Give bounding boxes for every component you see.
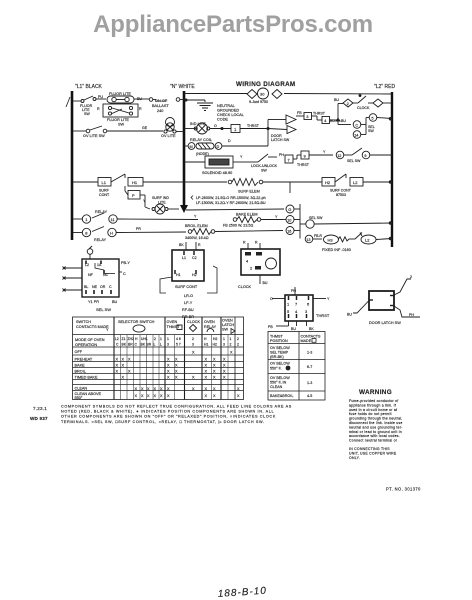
svg-text:X: X: [205, 370, 208, 374]
lamp oven light: [164, 118, 184, 134]
selector block top pin A: [87, 246, 93, 259]
svg-text:X: X: [213, 364, 216, 368]
label CLOCK: [357, 106, 370, 110]
table row BAKE: [75, 363, 227, 367]
svg-text:PREHEAT: PREHEAT: [75, 357, 93, 361]
svg-text:X: X: [223, 376, 226, 380]
svg-text:X: X: [167, 376, 170, 380]
svg-text:X: X: [160, 394, 163, 398]
svg-text:3: 3: [192, 343, 194, 347]
surf cont block top stubs: [186, 242, 196, 250]
label SURF CONT block: [175, 285, 198, 289]
svg-text:R: R: [255, 241, 258, 245]
svg-text:GROUNDED: GROUNDED: [217, 109, 239, 113]
svg-text:OVEN: OVEN: [222, 319, 233, 323]
svg-text:PH: PH: [409, 313, 414, 317]
svg-text:3: 3: [306, 114, 309, 119]
svg-text:H: H: [135, 337, 138, 341]
thrst pins top: [287, 296, 310, 307]
selector contact 14: [353, 131, 361, 139]
svg-text:C: C: [135, 343, 138, 347]
svg-text:H: H: [204, 337, 207, 341]
selector contact 10: [283, 216, 300, 224]
svg-text:BROIL ELEM: BROIL ELEM: [185, 224, 208, 228]
svg-text:SEL TEMP: SEL TEMP: [270, 351, 289, 355]
svg-text:NOTED (RED, BLACK & WHITE): NOTED (RED, BLACK & WHITE). ● INDICATES …: [61, 410, 274, 414]
label R left: [97, 107, 100, 111]
surface control H2 box: [290, 174, 346, 186]
svg-text:DOOR LATCH SW: DOOR LATCH SW: [369, 321, 401, 325]
fixed infinite switch: [349, 233, 362, 240]
svg-text:X: X: [205, 376, 208, 380]
svg-text:O: O: [270, 297, 273, 301]
svg-text:accordance with local codes: accordance with local codes.: [349, 434, 400, 438]
svg-text:CONTACTS: CONTACTS: [301, 335, 322, 339]
svg-text:MODE OF OVEN: MODE OF OVEN: [75, 338, 105, 342]
mode table grid: [73, 317, 244, 400]
svg-text:"L1" BLACK: "L1" BLACK: [75, 84, 103, 90]
svg-text:2: 2: [192, 337, 194, 341]
surf cont pin ticks: [175, 251, 196, 274]
svg-text:CLEAN: CLEAN: [75, 387, 88, 391]
spec bracket: [191, 196, 193, 200]
svg-text:R: R: [139, 107, 142, 111]
svg-text:X: X: [230, 350, 233, 354]
table row BROIL: [75, 369, 227, 373]
svg-text:FB-R: FB-R: [314, 234, 322, 238]
table row CLEAN ABOVE 550: [75, 392, 241, 400]
table row CLEAN: [75, 387, 241, 391]
surface control H1 box: [125, 174, 227, 195]
label 9-Junt 9750: [249, 100, 268, 104]
thrst bottom stubs: [276, 321, 307, 326]
svg-text:LP-2600W, 21.5Ω-O RR-1500W: LP-2600W, 21.5Ω-O RR-1500W, 3Ω.22-ph: [196, 196, 266, 200]
svg-text:X: X: [175, 358, 178, 362]
svg-text:C: C: [355, 122, 358, 127]
svg-text:5 7: 5 7: [176, 343, 181, 347]
svg-text:WD 937: WD 937: [30, 416, 48, 421]
label 2 door latch: [410, 275, 412, 279]
title WIRING DIAGRAM: [236, 81, 295, 88]
label SEL SW lock row: [347, 159, 361, 163]
selector contact 9: [362, 151, 392, 159]
label SEL SW bake: [309, 216, 323, 220]
label SURF IND LITE: [152, 196, 169, 205]
svg-text:BU: BU: [330, 119, 335, 123]
svg-text:7: 7: [288, 158, 291, 163]
label BAKE ELEM: [236, 213, 258, 217]
svg-text:BK: BK: [141, 343, 146, 347]
svg-text:2: 2: [154, 337, 156, 341]
svg-text:BR: BR: [147, 343, 152, 347]
svg-text:IN CONNECTING THIS: IN CONNECTING THIS: [349, 447, 390, 451]
svg-text:3: 3: [305, 309, 308, 314]
label OV LITE: [161, 134, 176, 138]
svg-text:Y: Y: [327, 297, 330, 301]
svg-text:1: 1: [230, 337, 232, 341]
warning paragraph: [349, 399, 403, 443]
svg-text:appliance through a link.: appliance through a link. If: [349, 403, 396, 407]
svg-text:X: X: [213, 358, 216, 362]
svg-text:X: X: [154, 394, 157, 398]
svg-text:THMST: THMST: [167, 325, 181, 329]
svg-text:OVEN: OVEN: [167, 320, 178, 324]
lamp indicator: [184, 123, 210, 134]
svg-text:D: D: [217, 145, 220, 149]
svg-text:minal or lead to ground u: minal or lead to ground unit in: [349, 430, 402, 434]
terminal box 4 thermostat: [322, 117, 338, 124]
clock block dial circle: [266, 258, 277, 269]
label GE: [142, 126, 148, 130]
table header SELECTOR SWITCH: [118, 320, 155, 332]
svg-text:THRST: THRST: [247, 124, 260, 128]
label BROIL ELEM: [185, 224, 208, 228]
svg-text:FB 2500 W, 23.5Ω: FB 2500 W, 23.5Ω: [223, 224, 253, 228]
bake element resistor: [233, 217, 283, 223]
svg-text:CLEAN: CLEAN: [270, 385, 283, 389]
door latch wire pin2: [394, 279, 411, 295]
label WD 937: [30, 416, 48, 421]
surf cont bracket: [160, 266, 217, 293]
label Y surf ind: [143, 199, 146, 203]
svg-text:LF-Y: LF-Y: [184, 301, 193, 305]
svg-text:7: 7: [295, 302, 298, 307]
svg-text:SOLENOID 48.90: SOLENOID 48.90: [202, 171, 232, 175]
svg-text:OV LITE: OV LITE: [161, 134, 176, 138]
svg-text:CLOCK: CLOCK: [187, 320, 201, 324]
thrst pins bottom: [287, 309, 308, 318]
selector switch block: [82, 259, 119, 297]
svg-text:UNIT, USE COPPER WIRE: UNIT, USE COPPER WIRE: [349, 452, 397, 456]
label PT NO 301370: [386, 487, 421, 492]
svg-text:2: 2: [237, 337, 239, 341]
svg-text:X: X: [192, 350, 195, 354]
svg-text:4: 4: [246, 260, 248, 264]
table row OFF: [75, 350, 234, 354]
svg-text:BROIL: BROIL: [75, 369, 86, 373]
svg-text:550°: 550°: [75, 396, 83, 400]
svg-text:IND LITE: IND LITE: [190, 122, 206, 126]
clock connector block: [241, 249, 280, 275]
selector block internal wire: [95, 263, 115, 274]
svg-text:FIXED INF .0160: FIXED INF .0160: [322, 248, 351, 252]
surface control L1 box: [73, 174, 125, 186]
svg-text:PU: PU: [98, 95, 103, 99]
svg-text:BU: BU: [334, 98, 339, 102]
svg-text:WARNING: WARNING: [359, 389, 392, 396]
svg-text:1-3: 1-3: [307, 351, 312, 355]
door latch pin ticks: [369, 296, 394, 306]
door latch wire pin3: [394, 306, 420, 317]
svg-text:P: P: [132, 193, 135, 198]
svg-text:CONTACTS MADE: CONTACTS MADE: [76, 325, 109, 329]
svg-text:D: D: [228, 139, 231, 143]
svg-text:TERMINALS. ○SEL SW, □SURF: TERMINALS. ○SEL SW, □SURF CONTROL, ○RELA…: [61, 420, 265, 424]
selector block left stubs: [63, 267, 83, 292]
label SURF CONT left: [99, 189, 110, 198]
table header CLOCK: [187, 320, 201, 332]
table header OVEN THMST: [167, 320, 183, 330]
switch lock-unlock: [249, 154, 277, 162]
label SURF ELEM: [238, 190, 260, 194]
svg-text:SURF CONT: SURF CONT: [175, 285, 198, 289]
label element spec line1: [196, 196, 266, 200]
fixed infinite H3 oval: [324, 235, 350, 244]
switch fluorescent light SW: [73, 96, 106, 103]
svg-text:5: 5: [371, 115, 374, 120]
svg-text:X: X: [141, 394, 144, 398]
svg-text:13: 13: [306, 238, 310, 242]
svg-text:OTHER COMPONENTS ARE SHOWN: OTHER COMPONENTS ARE SHOWN ON "OFF" OR "…: [61, 415, 276, 419]
svg-text:X: X: [135, 394, 138, 398]
svg-text:2: 2: [237, 343, 239, 347]
label O: [214, 124, 217, 128]
label FIXED INF .0160: [322, 248, 351, 252]
svg-text:3: 3: [167, 343, 169, 347]
label FB 2500 W: [223, 224, 253, 228]
selector wiper bracket: [300, 204, 306, 239]
mode table sub columns: [121, 335, 229, 400]
label (NODE): [196, 152, 209, 156]
table row TIMED BAKE: [75, 375, 227, 379]
svg-text:10: 10: [287, 219, 291, 223]
svg-text:LOCK-UNLOCK: LOCK-UNLOCK: [251, 164, 278, 168]
svg-text:8: 8: [85, 231, 88, 236]
label THRST block: [316, 313, 330, 318]
svg-text:OV BELOW: OV BELOW: [270, 362, 290, 366]
label NEUTRAL GROUNDED CHECK LOCAL CODE: [217, 104, 244, 122]
fluorescent starter box: [103, 104, 138, 117]
svg-text:"N" WHITE: "N" WHITE: [170, 84, 195, 90]
label RELAY row1: [95, 210, 108, 214]
switch oven light: [73, 126, 163, 133]
svg-text:BK: BK: [122, 343, 127, 347]
label RELAY row2: [94, 238, 107, 242]
svg-text:1: 1: [234, 127, 237, 132]
svg-text:BU: BU: [263, 281, 268, 285]
label SEL SW block: [96, 307, 111, 312]
label SEL SW mid: [368, 125, 375, 133]
thrst top stub PH: [294, 287, 296, 295]
door latch wire BU: [353, 301, 369, 314]
label RELAY COIL: [190, 138, 212, 142]
thermostat connector block: [285, 295, 313, 321]
clock block top stubs: [248, 243, 260, 249]
wire to ballast: [134, 98, 156, 102]
wire L2 rail: [391, 92, 393, 247]
svg-text:SEL SW: SEL SW: [347, 159, 361, 163]
svg-text:POSITION: POSITION: [270, 339, 288, 343]
svg-text:9: 9: [304, 154, 307, 159]
solenoid: [205, 156, 233, 168]
svg-text:X: X: [237, 394, 240, 398]
svg-text:X: X: [122, 364, 125, 368]
surf cont block pins: [176, 256, 197, 277]
svg-text:OV BELOW: OV BELOW: [270, 376, 290, 380]
clock contact diamond: [368, 99, 392, 107]
lamp fluorescent light: [107, 96, 134, 103]
svg-text:1: 1: [223, 337, 225, 341]
svg-text:CONT: CONT: [99, 193, 110, 197]
clock motor diamond right: [272, 90, 282, 99]
svg-text:O: O: [214, 124, 217, 128]
svg-text:PB: PB: [268, 325, 273, 329]
label C selector right: [123, 272, 126, 276]
label WARNING: [359, 389, 392, 396]
svg-text:SURF: SURF: [99, 189, 110, 193]
svg-text:4-5: 4-5: [307, 394, 312, 398]
selector right stub: [119, 271, 122, 273]
svg-text:BK: BK: [179, 243, 184, 247]
label R right: [139, 107, 142, 111]
svg-text:14: 14: [354, 133, 358, 137]
label Y sel row: [323, 150, 326, 154]
terminal box 7 thermostat: [285, 155, 301, 163]
wire N arrow to selector G: [186, 209, 284, 210]
thmst table row3: [270, 376, 312, 389]
svg-text:THRST: THRST: [297, 163, 310, 167]
svg-text:X: X: [205, 358, 208, 362]
surface element resistor: [228, 179, 290, 194]
label Y after bake elem: [275, 215, 278, 219]
selector block internal pins: [84, 263, 112, 289]
svg-text:X: X: [175, 376, 178, 380]
selector contact 12: [336, 148, 362, 159]
svg-text:X: X: [213, 394, 216, 398]
label BU door latch: [347, 313, 352, 317]
svg-text:X: X: [175, 370, 178, 374]
svg-text:RF-BU: RF-BU: [182, 308, 194, 312]
svg-text:SURF IND: SURF IND: [152, 196, 169, 200]
thmst table row4: [270, 394, 312, 398]
svg-text:MADE: MADE: [301, 339, 312, 343]
svg-text:BR: BR: [128, 343, 133, 347]
svg-text:"L2" RED: "L2" RED: [374, 84, 395, 90]
svg-text:SW: SW: [368, 129, 374, 133]
label CLOCK block: [238, 285, 252, 289]
svg-text:Y1 PR: Y1 PR: [88, 300, 99, 304]
svg-text:LF-1500W, 31.2Ω-Y RF-2600W: LF-1500W, 31.2Ω-Y RF-2600W, 21.5Ω-BU: [196, 201, 266, 205]
label SURF CONT 87503: [330, 189, 352, 198]
svg-text:X: X: [122, 358, 125, 362]
label BU clock branch: [334, 98, 339, 102]
svg-text:NE: NE: [92, 285, 98, 289]
wire N to solenoid: [184, 161, 205, 163]
svg-text:X: X: [116, 364, 119, 368]
svg-text:RELAY: RELAY: [95, 210, 108, 214]
svg-text:BU: BU: [341, 119, 346, 123]
clock motor circle 30: [258, 88, 269, 99]
svg-text:BALLAST: BALLAST: [152, 104, 169, 108]
svg-text:1: 1: [85, 217, 88, 222]
warning copper note: [349, 447, 397, 460]
label BK R stub labels: [179, 243, 201, 247]
label O thrst: [270, 297, 273, 301]
svg-text:disconnect the link. Inside: disconnect the link. Inside use: [349, 421, 403, 425]
svg-text:X: X: [167, 370, 170, 374]
svg-text:CLOCK: CLOCK: [238, 285, 252, 289]
svg-text:H1: H1: [132, 180, 138, 185]
ballast 240: [152, 99, 169, 113]
svg-text:2: 2: [250, 267, 252, 271]
svg-text:(NODE): (NODE): [196, 152, 209, 156]
svg-text:550° F, IN: 550° F, IN: [270, 381, 287, 385]
svg-text:BU: BU: [291, 327, 296, 331]
node L2 RED label: [374, 84, 395, 90]
svg-text:SW: SW: [222, 328, 229, 332]
svg-text:9-Junt 9750: 9-Junt 9750: [249, 100, 268, 104]
svg-text:CODE: CODE: [217, 118, 228, 122]
table subheader MODE OF OVEN OPERATION: [75, 338, 105, 347]
svg-text:X: X: [175, 364, 178, 368]
handwritten part number 188-B-10: [217, 586, 267, 600]
label FB: [297, 111, 302, 115]
svg-text:12: 12: [337, 154, 341, 158]
wire L1 rail: [66, 91, 72, 240]
surface control P box: [128, 191, 150, 210]
ground symbol: [197, 103, 213, 111]
svg-text:H1: H1: [176, 273, 181, 277]
watermark logo AppliancePartsPros.com: [93, 11, 373, 38]
svg-text:X: X: [205, 364, 208, 368]
selector bracket and contact 5: [361, 114, 392, 135]
svg-text:C: C: [123, 272, 126, 276]
wire junction to selector C: [338, 121, 351, 125]
svg-text:RELAY COIL: RELAY COIL: [190, 138, 212, 142]
terminal box 1 thermostat: [231, 125, 268, 133]
lamp surface indicator: [152, 204, 179, 214]
fixed infinite L2 oval: [361, 235, 392, 244]
svg-text:L2: L2: [115, 337, 119, 341]
svg-text:BU: BU: [112, 300, 118, 304]
label PB-Y: [121, 261, 130, 265]
svg-text:UHL: UHL: [141, 337, 148, 341]
relay coil: [184, 130, 268, 149]
thrst left stub O: [272, 298, 285, 300]
svg-text:Y: Y: [275, 215, 278, 219]
table header SWITCH CONTACTS MADE: [76, 320, 109, 332]
svg-text:SW: SW: [84, 112, 90, 116]
wire solenoid to lock switch: [233, 161, 249, 163]
svg-text:NEUTRAL: NEUTRAL: [217, 104, 235, 108]
label SOLENOID 48.90: [202, 171, 232, 175]
wire lamp to thermostat pin1: [210, 127, 231, 129]
svg-text:CHECK LOCAL: CHECK LOCAL: [217, 113, 244, 117]
svg-text:OR: OR: [100, 285, 106, 289]
clock block bottom stub BU: [259, 275, 261, 284]
svg-text:OV LITE SW: OV LITE SW: [83, 134, 105, 138]
thmst table header: [270, 335, 321, 344]
wire N rail: [180, 91, 188, 213]
svg-text:SW: SW: [261, 169, 267, 173]
svg-text:4: 4: [324, 118, 327, 123]
svg-text:G: G: [288, 207, 291, 212]
svg-text:X: X: [116, 358, 119, 362]
svg-text:R: R: [198, 243, 201, 247]
svg-text:C: C: [109, 285, 112, 289]
wire ballast to N rail: [176, 98, 184, 102]
terminal box 3 thermostat: [304, 113, 322, 121]
svg-text:SELECTOR SWITCH: SELECTOR SWITCH: [118, 320, 155, 324]
svg-text:9: 9: [364, 154, 366, 158]
selector wiper contact: [306, 220, 392, 228]
svg-text:BAKE&BROIL: BAKE&BROIL: [270, 394, 293, 398]
label OV LITE SW: [83, 134, 105, 138]
svg-text:SWITCH: SWITCH: [76, 320, 91, 324]
svg-text:RELAY: RELAY: [94, 238, 107, 242]
svg-text:used in a circuit home or: used in a circuit home or at: [349, 408, 397, 412]
svg-text:550° F.: 550° F.: [270, 367, 282, 371]
